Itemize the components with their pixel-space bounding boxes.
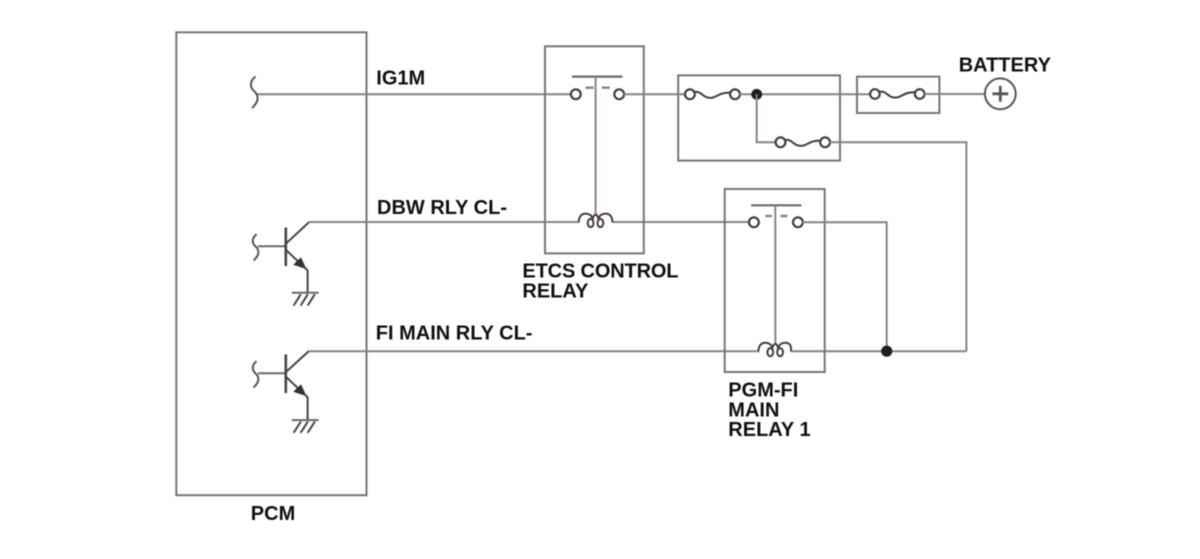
wire F3 to battery bbox=[924, 93, 985, 95]
wire DBW RLY CL- bbox=[309, 221, 580, 223]
wire ETCS coil to PGM-FI switch bbox=[612, 221, 754, 223]
break node IG1M pin bbox=[251, 77, 258, 109]
junction dot B bbox=[881, 346, 892, 357]
PCM box bbox=[176, 32, 366, 495]
ETCS relay switch pin left bbox=[571, 89, 581, 99]
ETCS relay coil bbox=[579, 214, 613, 228]
break node Q2 base bbox=[253, 361, 259, 387]
ETCS relay switch dashes bbox=[586, 87, 610, 89]
wire PGM-FI coil to right vertical bbox=[790, 350, 966, 352]
wire IG1M bbox=[257, 93, 576, 95]
PGM-FI relay armature link bbox=[774, 205, 776, 344]
fuse F3 bbox=[870, 89, 924, 99]
svg-text:IG1M: IG1M bbox=[376, 67, 425, 89]
svg-text:PCM: PCM bbox=[251, 503, 295, 525]
ground G2 bbox=[292, 420, 319, 433]
transistor Q1 bbox=[258, 222, 309, 293]
svg-text:BATTERY: BATTERY bbox=[959, 55, 1052, 77]
PGM-FI relay switch pin left bbox=[749, 217, 759, 227]
svg-text:RELAY: RELAY bbox=[522, 280, 589, 302]
battery symbol bbox=[985, 78, 1016, 109]
break node Q1 base bbox=[253, 234, 259, 260]
ETCS relay armature bar bbox=[572, 75, 622, 77]
PGM-FI relay switch dashes bbox=[765, 215, 787, 217]
fuse F1 bbox=[685, 89, 740, 99]
wire FI MAIN RLY CL- bbox=[309, 350, 759, 352]
ETCS relay box bbox=[545, 46, 644, 253]
PGM-FI relay switch pin right bbox=[793, 217, 803, 227]
svg-text:ETCS CONTROL: ETCS CONTROL bbox=[522, 260, 678, 282]
PGM-FI relay box bbox=[725, 189, 825, 372]
svg-text:DBW RLY CL-: DBW RLY CL- bbox=[377, 197, 507, 219]
fuse box 2 bbox=[857, 77, 939, 113]
wire PGM-FI switch right to junction B bbox=[802, 222, 886, 351]
PGM-FI relay coil bbox=[758, 343, 791, 357]
svg-text:RELAY 1: RELAY 1 bbox=[728, 419, 810, 441]
svg-text:FI MAIN RLY CL-: FI MAIN RLY CL- bbox=[376, 323, 533, 345]
ground G1 bbox=[292, 293, 319, 306]
wire F1 to fuse box 2 bbox=[740, 93, 876, 95]
PGM-FI relay armature bar bbox=[751, 204, 801, 206]
fuse F2 bbox=[776, 137, 830, 147]
ETCS relay switch pin right bbox=[614, 89, 624, 99]
junction dot A bbox=[751, 89, 762, 100]
ETCS relay armature link bbox=[595, 77, 597, 215]
wire ETCS switch to fuse F1 bbox=[624, 93, 690, 95]
transistor Q2 bbox=[258, 351, 309, 420]
fuse box 1 bbox=[678, 75, 840, 160]
wire junction A down to fuse F2 bbox=[757, 94, 781, 142]
wire F2 right and down right vertical bbox=[830, 142, 967, 351]
